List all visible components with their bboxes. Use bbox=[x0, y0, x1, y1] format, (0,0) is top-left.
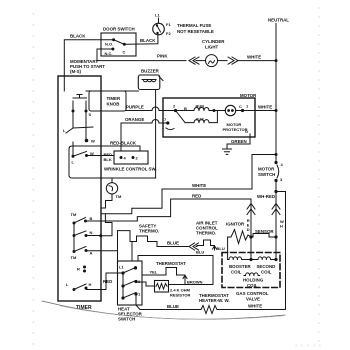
gas control valve dashed box bbox=[222, 253, 280, 288]
svg-text:L1: L1 bbox=[155, 13, 160, 18]
svg-text:PROTECTOR: PROTECTOR bbox=[223, 127, 248, 132]
svg-text:GAS CONTROL: GAS CONTROL bbox=[236, 291, 269, 296]
wire red bbox=[137, 199, 251, 221]
timer motor TM bbox=[111, 178, 113, 183]
svg-text:HOLDING: HOLDING bbox=[243, 278, 264, 283]
svg-text:KNOB: KNOB bbox=[107, 102, 120, 107]
wire wh-red branch bbox=[276, 192, 286, 310]
svg-text:S: S bbox=[89, 112, 92, 117]
connector chevrons on red line bbox=[250, 199, 252, 237]
cylinder light bbox=[206, 55, 218, 67]
wire orange bbox=[121, 120, 168, 151]
svg-text:SECOND: SECOND bbox=[257, 264, 276, 269]
svg-text:THERMOSTAT: THERMOSTAT bbox=[156, 261, 186, 266]
svg-text:F1: F1 bbox=[166, 22, 171, 27]
svg-text:YEL: YEL bbox=[150, 270, 158, 275]
svg-text:COIL: COIL bbox=[247, 283, 258, 288]
svg-text:WHITE: WHITE bbox=[248, 304, 262, 309]
svg-text:(M-S): (M-S) bbox=[70, 69, 82, 74]
motor terminal 2 bbox=[174, 109, 177, 112]
svg-text:G: G bbox=[245, 129, 248, 134]
motor terminal C bbox=[236, 110, 276, 112]
svg-text:WHITE: WHITE bbox=[247, 55, 261, 60]
svg-text:COIL: COIL bbox=[261, 270, 272, 275]
svg-text:BLACK: BLACK bbox=[140, 38, 156, 43]
ground bbox=[223, 149, 232, 154]
door switch arm bbox=[114, 40, 125, 45]
svg-text:BLUE: BLUE bbox=[167, 304, 179, 309]
svg-text:N.C.: N.C. bbox=[105, 51, 113, 56]
svg-text:TM: TM bbox=[71, 212, 77, 217]
timer contact L-W lower bbox=[72, 155, 75, 158]
svg-text:LIGHT: LIGHT bbox=[205, 45, 218, 50]
wire pink lamp line bbox=[97, 60, 186, 62]
door switch contact N.C. bbox=[111, 48, 114, 51]
wire blue bbox=[157, 246, 188, 248]
resistor 2.4k bbox=[155, 281, 169, 293]
wire black left of door switch bbox=[64, 40, 113, 76]
wire white stair bbox=[101, 214, 112, 236]
timer knob box bbox=[89, 91, 126, 111]
svg-text:H: H bbox=[89, 282, 92, 287]
wire red-black bbox=[69, 146, 140, 151]
connector chevrons on wh line bbox=[272, 204, 280, 215]
svg-text:WRINKLE CONTROL SW.: WRINKLE CONTROL SW. bbox=[104, 167, 157, 172]
motor switch bbox=[274, 161, 277, 164]
svg-text:BLUE: BLUE bbox=[167, 241, 179, 246]
svg-text:RED: RED bbox=[192, 194, 201, 199]
svg-text:WH-RED: WH-RED bbox=[257, 194, 275, 199]
booster coil bbox=[228, 257, 251, 260]
wire purple bbox=[126, 107, 176, 111]
svg-text:F2: F2 bbox=[166, 31, 171, 36]
svg-text:NOT RESETABLE: NOT RESETABLE bbox=[177, 29, 214, 34]
svg-text:R: R bbox=[77, 267, 80, 272]
svg-text:L1: L1 bbox=[119, 265, 124, 270]
svg-text:THERMO.: THERMO. bbox=[196, 231, 216, 236]
wire W to wrinkle switch bbox=[87, 155, 115, 157]
svg-text:N: N bbox=[90, 230, 93, 235]
wire brown bbox=[183, 275, 187, 285]
wire S to buzzer bbox=[86, 90, 138, 92]
svg-text:THERMO.: THERMO. bbox=[139, 229, 159, 234]
door switch contact N.O. bbox=[112, 38, 115, 41]
svg-text:BLACK: BLACK bbox=[70, 34, 86, 39]
watermark dots bbox=[33, 7, 321, 346]
svg-text:COIL: COIL bbox=[231, 270, 242, 275]
buzzer bbox=[138, 75, 160, 90]
svg-text:THERMAL FUSE: THERMAL FUSE bbox=[177, 23, 211, 28]
svg-text:W: W bbox=[91, 139, 95, 144]
holding coil bbox=[244, 273, 260, 276]
svg-text:WHITE: WHITE bbox=[258, 105, 272, 110]
svg-text:GREEN: GREEN bbox=[231, 139, 247, 144]
svg-text:PINK: PINK bbox=[157, 54, 168, 59]
heat selector switch box bbox=[118, 261, 143, 305]
motor box bbox=[163, 98, 255, 137]
svg-text:TM: TM bbox=[116, 194, 122, 199]
door switch box bbox=[101, 33, 136, 56]
svg-text:BLU: BLU bbox=[217, 246, 225, 251]
wire door switch C to thermal fuse bbox=[124, 35, 158, 44]
svg-text:IGNITOR: IGNITOR bbox=[226, 222, 245, 227]
svg-text:C: C bbox=[123, 50, 126, 55]
wire white bottom bbox=[217, 309, 286, 311]
connector chevrons right of cylinder light bbox=[218, 60, 228, 62]
svg-text:DOOR SWITCH: DOOR SWITCH bbox=[103, 27, 135, 32]
svg-text:D: D bbox=[247, 227, 250, 232]
svg-text:BOOSTER: BOOSTER bbox=[229, 264, 252, 269]
second coil bbox=[251, 257, 276, 260]
wire hot feed to timer bbox=[69, 149, 156, 178]
svg-text:HEATER-W. W.: HEATER-W. W. bbox=[199, 298, 230, 303]
svg-text:BLU: BLU bbox=[196, 250, 204, 255]
air inlet thermo bbox=[197, 240, 215, 246]
svg-text:WHITE: WHITE bbox=[192, 183, 206, 188]
svg-text:C: C bbox=[239, 104, 242, 109]
wire white lamp to neutral bbox=[238, 60, 276, 62]
timer contact L-W upper bbox=[72, 113, 74, 129]
timer contact TM-A bbox=[73, 250, 76, 253]
svg-text:MOTOR: MOTOR bbox=[240, 93, 257, 98]
svg-text:RED-BLACK: RED-BLACK bbox=[110, 141, 137, 146]
wire N.C. to pink lamp line bbox=[97, 49, 113, 61]
svg-text:TM: TM bbox=[71, 255, 77, 260]
svg-text:H: H bbox=[280, 224, 283, 229]
wire white to neutral bbox=[162, 155, 276, 190]
svg-text:SWITCH: SWITCH bbox=[258, 172, 275, 177]
svg-text:NEUTRAL: NEUTRAL bbox=[268, 18, 289, 23]
timer contact N bbox=[73, 234, 76, 237]
svg-text:PURPLE: PURPLE bbox=[126, 105, 144, 110]
timer box bbox=[58, 76, 101, 301]
svg-text:BUZZER: BUZZER bbox=[141, 69, 160, 74]
motor protector bbox=[214, 110, 226, 112]
thermal fuse bbox=[153, 23, 165, 35]
wrinkle control switch box bbox=[114, 151, 148, 164]
svg-text:MOTOR: MOTOR bbox=[258, 167, 275, 172]
momentary start switch bbox=[63, 76, 65, 91]
svg-text:BLK: BLK bbox=[104, 157, 112, 162]
svg-text:TIMER: TIMER bbox=[107, 96, 121, 101]
svg-text:N.O.: N.O. bbox=[105, 42, 113, 47]
svg-text:ORANGE: ORANGE bbox=[125, 117, 144, 122]
wire buzzer down (hot line) bbox=[155, 90, 157, 179]
svg-text:VALVE: VALVE bbox=[246, 297, 260, 302]
svg-text:BROWN: BROWN bbox=[187, 280, 203, 285]
wire blue bottom bbox=[136, 294, 201, 310]
svg-text:B: B bbox=[90, 216, 93, 221]
motor terminal 7 bbox=[166, 121, 169, 124]
svg-text:CYLINDER: CYLINDER bbox=[202, 39, 225, 44]
door switch contact C bbox=[123, 43, 126, 46]
svg-text:RESISTOR: RESISTOR bbox=[170, 293, 190, 298]
svg-text:SWITCH: SWITCH bbox=[118, 317, 135, 322]
connector chevrons left of cylinder light bbox=[189, 57, 199, 64]
svg-text:RED: RED bbox=[103, 279, 112, 284]
wire red timer to heat selector bbox=[86, 273, 123, 290]
decorative swoosh bbox=[42, 301, 285, 319]
